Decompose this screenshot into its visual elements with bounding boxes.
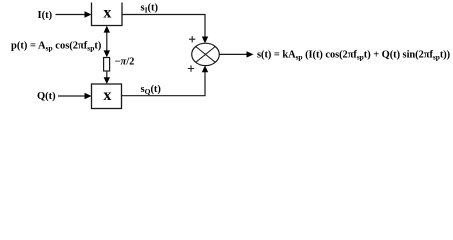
- svg-text:x: x: [103, 87, 111, 104]
- wire Q(t) to multiplier: [58, 95, 86, 97]
- arrowhead down into phase shifter: [104, 50, 110, 57]
- wire top multiplier to corner: [122, 14, 206, 16]
- plus sign bottom input: [188, 65, 194, 71]
- wire corner up to summer: [204, 71, 206, 96]
- wire bottom multiplier to corner: [122, 95, 206, 97]
- svg-text:p(t) = Asp cos(2πfspt): p(t) = Asp cos(2πfspt): [11, 41, 102, 53]
- arrowhead into summer bottom: [202, 66, 208, 73]
- summer cross diagonal 1: [196, 47, 216, 63]
- svg-text:Q(t): Q(t): [37, 91, 56, 102]
- wire I(t) to multiplier: [56, 14, 87, 16]
- phase shifter box: [104, 58, 110, 72]
- multiplier box top (I branch): [92, 3, 123, 26]
- wire corner down to summer: [204, 15, 206, 39]
- arrowhead into top multiplier: [85, 11, 92, 17]
- svg-text:sI(t): sI(t): [141, 3, 159, 15]
- wire summer output: [219, 53, 248, 55]
- svg-text:s(t) = kAsp (I(t) cos(2πfspt): s(t) = kAsp (I(t) cos(2πfspt) + Q(t) sin…: [257, 50, 450, 62]
- arrowhead into bottom multiplier top: [104, 77, 110, 84]
- svg-text:x: x: [103, 4, 111, 21]
- svg-text:sQ(t): sQ(t): [141, 84, 162, 96]
- plus sign top input: [189, 36, 195, 42]
- multiplier box bottom (Q branch): [92, 84, 122, 109]
- summer circle: [192, 43, 220, 65]
- arrowhead into summer top: [202, 37, 208, 44]
- arrowhead into bottom multiplier: [85, 93, 92, 99]
- wire carrier split vertical: [106, 30, 108, 53]
- arrowhead up into top multiplier: [104, 26, 110, 33]
- wire phase shifter to bottom multiplier: [106, 71, 108, 79]
- arrowhead output s(t): [247, 51, 254, 57]
- svg-text:I(t): I(t): [38, 10, 53, 21]
- svg-text:−π/2: −π/2: [115, 57, 135, 68]
- summer cross diagonal 2: [196, 47, 216, 63]
